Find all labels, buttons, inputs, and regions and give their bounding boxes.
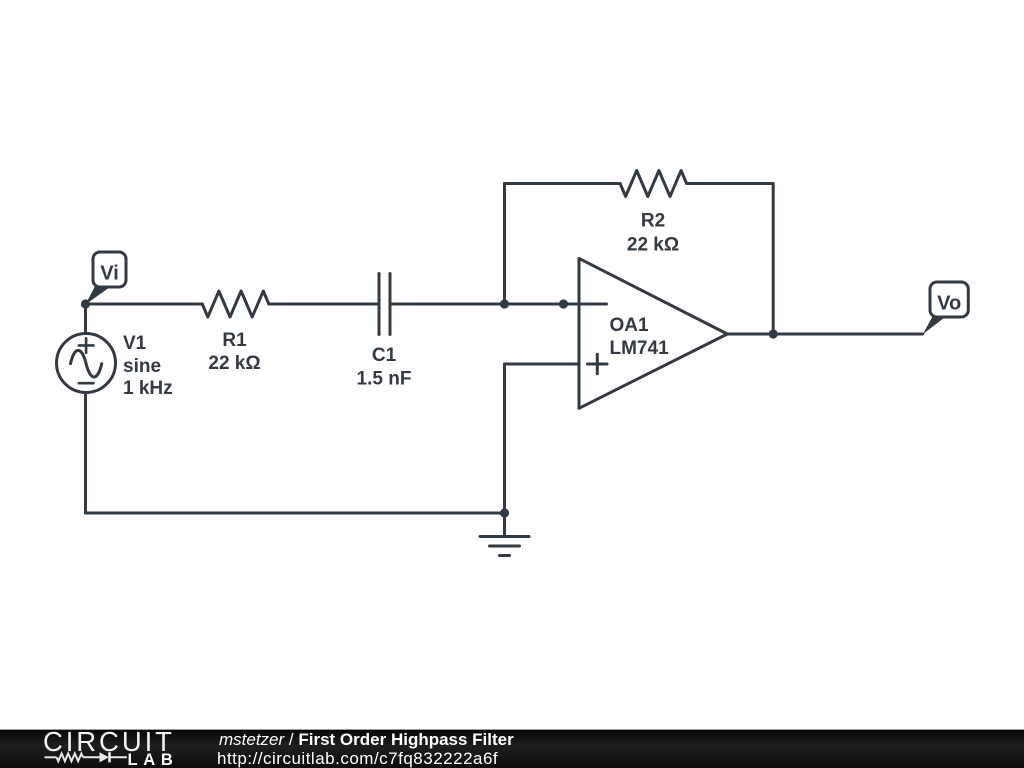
capacitor C1 (379, 274, 390, 335)
ground symbol (480, 513, 529, 556)
svg-text:http://circuitlab.com/c7fq8322: http://circuitlab.com/c7fq832222a6f (217, 749, 498, 768)
svg-text:V1: V1 (123, 333, 147, 354)
svg-text:22 kΩ: 22 kΩ (627, 235, 679, 256)
wire R1 to C1 (269, 303, 379, 306)
wire non-inverting to ground vertical (503, 364, 506, 513)
wire Vi node to R1 (86, 303, 203, 306)
wire non-inverting input (505, 363, 580, 366)
svg-text:22 kΩ: 22 kΩ (208, 353, 260, 374)
op-amp plus symbol (588, 354, 608, 374)
logo circuit glyph (45, 752, 127, 762)
node flag Vo (930, 282, 968, 317)
wire feedback top right (687, 182, 774, 185)
svg-text:LAB: LAB (128, 751, 179, 768)
wire op-amp output (727, 333, 923, 336)
junction node output tap (769, 329, 778, 338)
svg-text:sine: sine (123, 356, 161, 377)
svg-text:C1: C1 (372, 345, 397, 366)
junction node inverting pin (559, 299, 568, 308)
wire inverting feedback vertical (503, 184, 506, 305)
junction node at Vi (81, 299, 90, 308)
svg-text:R1: R1 (222, 330, 247, 351)
svg-text:Vi: Vi (100, 263, 119, 285)
svg-text:1.5 nF: 1.5 nF (357, 369, 412, 390)
junction node ground (500, 508, 509, 517)
wire V1 top (84, 304, 87, 334)
footer bar (0, 729, 1024, 768)
wire C1 to op-amp inverting input (392, 303, 564, 306)
svg-text:R2: R2 (641, 211, 665, 232)
wire bottom return (86, 512, 505, 515)
op-amp inverting input lead (564, 303, 607, 306)
node flag pointer Vi (86, 286, 110, 305)
svg-text:OA1: OA1 (610, 315, 650, 336)
resistor R2 (620, 171, 687, 197)
svg-text:Vo: Vo (937, 293, 961, 315)
node flag Vi (93, 252, 126, 287)
resistor R1 (202, 291, 268, 317)
svg-text:mstetzer / First Order Highpas: mstetzer / First Order Highpass Filter (219, 730, 514, 749)
junction node feedback tap (500, 299, 509, 308)
wire V1 bottom (84, 393, 87, 513)
svg-text:1 kHz: 1 kHz (123, 378, 173, 399)
wire feedback right vertical to output (772, 184, 775, 335)
wire feedback top left (505, 182, 621, 185)
svg-text:LM741: LM741 (610, 338, 670, 359)
voltage source V1 (57, 334, 116, 393)
node flag pointer Vo (923, 316, 945, 334)
op-amp U1 triangle (579, 258, 727, 408)
